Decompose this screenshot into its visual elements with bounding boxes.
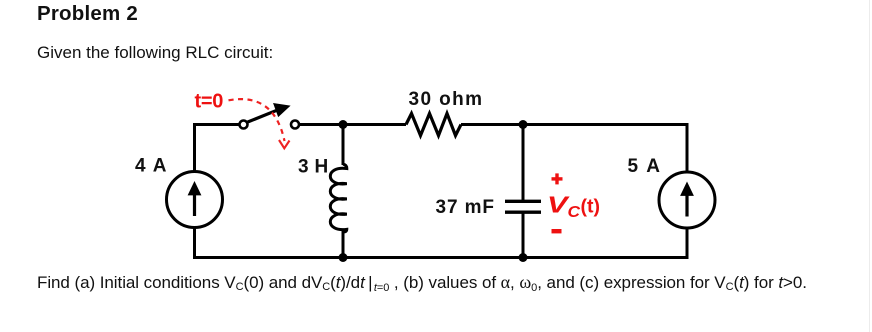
node: bottom junction at capacitor (519, 253, 528, 262)
switch arc arrowhead (red v) (279, 140, 290, 148)
svg-text:4 A: 4 A (135, 156, 168, 177)
label + polarity (red) (552, 173, 563, 184)
label Vc(t) (red) (547, 192, 600, 222)
wire: left vertical upper (source 4A top lead) (193, 123, 196, 172)
question text (37, 272, 807, 294)
wire: inductor top lead (342, 123, 345, 165)
wire: capacitor top lead (522, 123, 525, 200)
label 30 ohm (409, 89, 484, 110)
wire: bottom horizontal rail (193, 256, 689, 259)
node: top junction at capacitor (519, 120, 528, 129)
capacitor C1 bottom plate (505, 210, 541, 213)
switch SW1 right contact (291, 121, 299, 129)
wire: top segment from switch to resistor (299, 123, 406, 126)
label 37 mF (436, 197, 495, 218)
wire: inductor bottom lead (342, 231, 345, 259)
switch opening dashed red arc (229, 99, 285, 141)
label 4 A (135, 156, 168, 177)
svg-text:5 A: 5 A (628, 156, 662, 177)
capacitor C1 top plate (505, 200, 541, 203)
inductor L1 coil (330, 164, 347, 232)
wire: top-left horizontal segment to switch (193, 123, 240, 126)
heading: Problem 2 (37, 2, 138, 26)
current source I1 arrow (188, 181, 202, 216)
switch SW1 blade with arrowhead (247, 104, 290, 123)
svg-text:C: C (568, 204, 581, 221)
wire: right vertical lower (source 5A bottom lead) (686, 228, 689, 259)
label - polarity (red) (552, 229, 562, 233)
node: bottom junction at inductor (339, 253, 348, 262)
svg-text:V: V (547, 192, 570, 218)
svg-text:t=0: t=0 (195, 91, 224, 113)
svg-text:(t): (t) (581, 196, 600, 218)
label 5 A (628, 156, 662, 177)
label t=0 (red) (195, 91, 224, 113)
wire: right vertical upper (source 5A top lead) (686, 123, 689, 173)
svg-text:30 ohm: 30 ohm (409, 89, 484, 110)
faint page edge line (869, 0, 870, 332)
wire: capacitor bottom lead (522, 214, 525, 260)
label 3 H (298, 156, 328, 177)
switch SW1 left contact (240, 121, 248, 129)
current source I2 circle (659, 172, 715, 228)
current source I2 arrow (680, 182, 694, 217)
wire: left vertical lower (source 4A bottom lead) (193, 228, 196, 260)
node: top junction at inductor (339, 120, 348, 129)
intro text (37, 43, 273, 63)
current source I1 circle (167, 172, 223, 228)
svg-text:37 mF: 37 mF (436, 197, 495, 218)
resistor R1 zigzag (406, 114, 461, 136)
svg-text:3 H: 3 H (298, 156, 328, 177)
wire: top segment from resistor to right corner (461, 123, 689, 126)
